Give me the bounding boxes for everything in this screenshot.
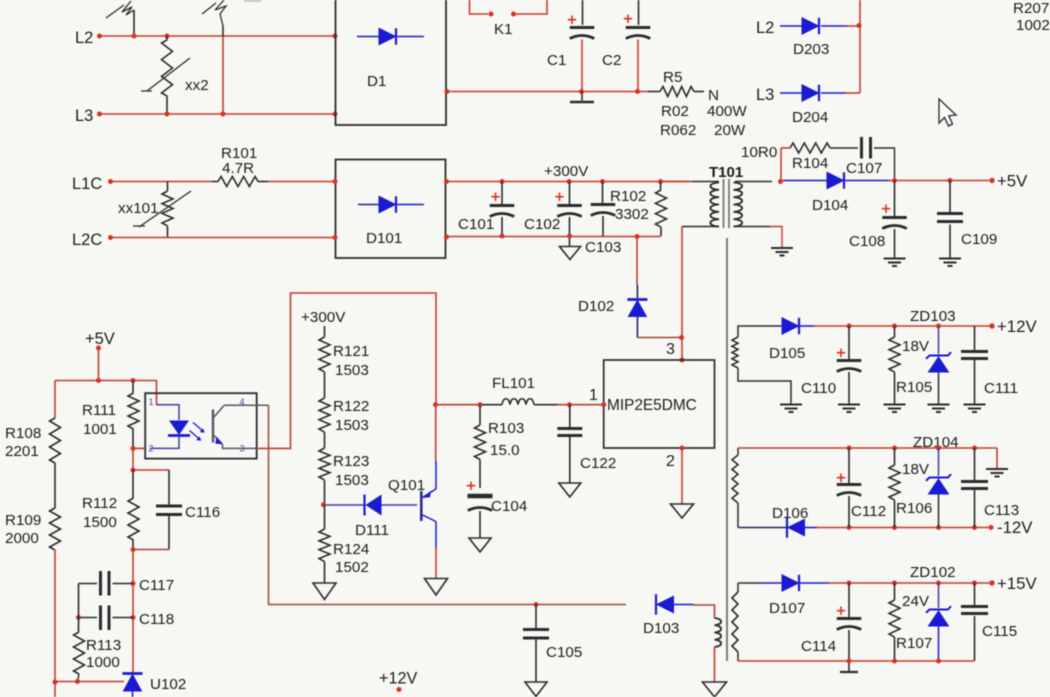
- junction C114 top: [847, 581, 852, 586]
- svg-text:1502: 1502: [335, 559, 369, 576]
- node +12V end: [989, 323, 994, 328]
- ground C122: [559, 483, 581, 497]
- svg-text:C102: C102: [524, 216, 560, 233]
- wire loop down to Q101: [435, 405, 437, 461]
- T101 core extension: [726, 238, 728, 661]
- ground S1: [780, 404, 802, 406]
- wire into opto pin1: [156, 381, 158, 406]
- T101 secondary bottom lead: [735, 226, 770, 228]
- junction C105: [534, 602, 539, 607]
- wire D203 out: [846, 25, 860, 27]
- plus C2: [624, 15, 632, 24]
- junction left-bottom: [53, 680, 58, 685]
- node T101 out: [778, 179, 783, 184]
- svg-text:D105: D105: [769, 345, 805, 362]
- diode D203: [780, 25, 802, 27]
- capacitor C113: [974, 448, 976, 480]
- wire D102 to pin3 node: [637, 337, 682, 339]
- svg-text:2000: 2000: [5, 530, 39, 547]
- svg-text:D203: D203: [793, 41, 829, 58]
- svg-text:L3: L3: [756, 86, 774, 104]
- node D1 in bottom: [333, 112, 338, 117]
- wire S4 bottom: [714, 647, 716, 682]
- wire +5V drop: [98, 348, 100, 381]
- svg-text:xx2: xx2: [185, 77, 209, 94]
- svg-text:C107: C107: [846, 160, 882, 177]
- svg-text:C101: C101: [458, 216, 494, 233]
- junction C1: [579, 89, 584, 94]
- plus C114: [837, 607, 845, 616]
- diode D104: [783, 180, 827, 182]
- svg-text:1: 1: [149, 397, 154, 407]
- svg-text:+5V: +5V: [997, 172, 1028, 191]
- capacitor C116: [168, 470, 170, 505]
- node D101 out top: [444, 179, 449, 184]
- capacitor C105: [535, 605, 537, 629]
- svg-text:L3: L3: [75, 107, 93, 125]
- opto phototransistor: [212, 410, 214, 443]
- diode D106: [738, 527, 787, 529]
- svg-text:C2: C2: [602, 52, 621, 69]
- wire D204 out: [846, 92, 860, 94]
- wire left rail bottom: [54, 550, 56, 697]
- svg-text:C109: C109: [961, 231, 997, 248]
- ground -12V rail: [986, 468, 1008, 470]
- ground C109: [939, 258, 961, 260]
- ground T101 secondary: [771, 247, 793, 249]
- svg-text:R111: R111: [82, 402, 116, 419]
- node D101 out bottom: [444, 235, 449, 240]
- svg-text:2: 2: [666, 453, 675, 470]
- wire C101 bottom: [501, 217, 503, 236]
- node D203 out: [857, 23, 862, 28]
- svg-text:+12V: +12V: [379, 670, 417, 688]
- resistor R124: [324, 505, 326, 529]
- junction C2: [635, 89, 640, 94]
- svg-text:Q101: Q101: [388, 477, 425, 494]
- junction C112 top: [847, 446, 852, 451]
- node +15V end: [989, 580, 994, 585]
- resistor R107: [894, 583, 896, 600]
- svg-text:R109: R109: [5, 512, 41, 529]
- capacitor C104: [468, 494, 493, 498]
- optocoupler box: [145, 393, 257, 458]
- node L1C dot: [108, 179, 113, 184]
- svg-text:+15V: +15V: [997, 574, 1037, 593]
- wire +300V rail: [447, 181, 691, 183]
- plus C1: [568, 16, 576, 25]
- node +5V: [96, 346, 101, 351]
- zener ZD102: [938, 583, 940, 608]
- wire +15V bottom rail: [738, 660, 975, 662]
- svg-text:R122: R122: [333, 398, 369, 415]
- junction R106 bottom: [892, 525, 897, 530]
- svg-text:R107: R107: [896, 635, 932, 652]
- junction 98/380: [96, 378, 101, 383]
- wire x133 rail: [132, 550, 134, 674]
- earth stub C114: [848, 661, 850, 671]
- svg-text:1000: 1000: [86, 654, 120, 671]
- T101 primary bottom lead: [682, 226, 719, 228]
- svg-text:K1: K1: [494, 21, 513, 38]
- svg-text:L1C: L1C: [72, 175, 102, 193]
- junction R107 top: [892, 581, 897, 586]
- svg-text:ZD103: ZD103: [910, 308, 956, 325]
- resistor R121: [324, 326, 326, 337]
- resistor R5: [648, 91, 660, 93]
- wire to T101 primary top: [661, 181, 692, 183]
- svg-text:R121: R121: [333, 343, 369, 360]
- ground C105: [525, 682, 547, 697]
- svg-text:C1: C1: [547, 52, 566, 69]
- wire +5V horizontal: [55, 380, 157, 382]
- wire C117-C118 left link: [78, 584, 80, 633]
- diode D103: [655, 594, 657, 614]
- capacitor C109: [949, 181, 951, 213]
- capacitor C102: [569, 182, 571, 205]
- node L3 start dot: [97, 112, 102, 117]
- ground S4: [703, 682, 727, 697]
- wire left rail top: [54, 381, 56, 419]
- ground below C102: [560, 247, 581, 260]
- wire pin1: [557, 404, 604, 406]
- diode symbol in D101: [358, 204, 424, 206]
- svg-text:R062: R062: [660, 122, 696, 139]
- svg-text:+12V: +12V: [997, 317, 1037, 336]
- wire pin2 drop: [681, 448, 683, 504]
- svg-text:R124: R124: [333, 541, 369, 558]
- svg-text:xx101: xx101: [118, 200, 159, 217]
- junction R113 bottom: [75, 679, 80, 684]
- wire R111bot to C116 node: [132, 448, 134, 470]
- wire primary bottom drop: [681, 227, 683, 361]
- wire L1C: [112, 181, 212, 183]
- wire C110 bottom: [848, 372, 850, 404]
- svg-text:15.0: 15.0: [490, 442, 520, 459]
- junction ZD104 top: [936, 446, 941, 451]
- resistor R112: [132, 470, 134, 498]
- junction R107 bottom: [892, 659, 897, 664]
- wire L3 line: [101, 113, 336, 115]
- wire -12V rail: [816, 527, 990, 529]
- svg-text:R105: R105: [896, 379, 932, 396]
- wire opto pin2 out: [133, 447, 145, 449]
- node pin1: [601, 402, 606, 407]
- capacitor C1: [570, 26, 595, 29]
- wire L2 line: [101, 35, 336, 37]
- wire C104 bottom: [479, 511, 481, 538]
- earth stub below C1: [581, 92, 583, 101]
- wire C109 bottom: [949, 225, 951, 259]
- ground C110: [838, 404, 860, 406]
- svg-text:C115: C115: [982, 623, 1017, 640]
- capacitor C111: [974, 326, 976, 350]
- wire C116 branch: [133, 469, 169, 471]
- node D1 output: [445, 89, 450, 94]
- junction R112 bottom: [131, 547, 136, 552]
- svg-text:C108: C108: [849, 233, 885, 250]
- svg-text:C118: C118: [139, 611, 174, 628]
- junction C117 right: [131, 581, 136, 586]
- node +12V bottom: [397, 687, 402, 692]
- junction R106 top: [892, 446, 897, 451]
- junction C122: [567, 402, 572, 407]
- junction ZD103: [936, 324, 941, 329]
- wire -12V top rail: [738, 447, 997, 449]
- node K1 right: [511, 12, 516, 17]
- svg-text:C116: C116: [185, 504, 220, 521]
- node D101 in top: [333, 179, 338, 184]
- svg-text:R123: R123: [333, 453, 369, 470]
- wire +12V rail: [813, 325, 990, 327]
- winding S2: [737, 448, 739, 455]
- transistor Q101: [420, 491, 423, 521]
- junction C118 left: [76, 615, 81, 620]
- capacitor C112: [848, 448, 850, 483]
- junction C113 top: [972, 446, 977, 451]
- resistor R109: [50, 508, 61, 550]
- wire opto pin4 out: [257, 404, 269, 406]
- svg-text:+300V: +300V: [544, 163, 589, 180]
- capacitor C114: [848, 583, 850, 617]
- resistor R122: [324, 372, 326, 398]
- wire L2C: [112, 237, 336, 239]
- svg-text:400W: 400W: [707, 103, 747, 120]
- winding S3: [737, 583, 739, 592]
- wire bottom rail: [447, 236, 662, 238]
- junction L3/vert: [221, 112, 226, 117]
- svg-text:D103: D103: [643, 620, 679, 637]
- capacitor C2 top lead: [638, 0, 640, 25]
- relay contact K1: [470, 0, 489, 14]
- wire R101 to D101: [268, 181, 336, 183]
- node L2 start dot: [97, 34, 102, 39]
- inductor FL101: [480, 404, 502, 406]
- svg-text:D101: D101: [366, 230, 402, 247]
- T101 core: [723, 179, 725, 228]
- capacitor C108: [894, 181, 896, 217]
- svg-text:+300V: +300V: [301, 309, 346, 326]
- svg-text:FL101: FL101: [492, 375, 535, 392]
- wire loop to FL101: [436, 404, 480, 406]
- resistor R108: [50, 418, 61, 463]
- node -12V: [989, 525, 994, 530]
- capacitor C110: [848, 326, 850, 359]
- junction C109: [948, 178, 953, 183]
- resistor R101: [212, 181, 218, 183]
- svg-text:C104: C104: [491, 498, 527, 515]
- node K1 left: [489, 12, 494, 17]
- node L2C dot: [108, 235, 113, 240]
- wire Q101 collector down: [435, 522, 437, 549]
- svg-text:R02: R02: [661, 103, 689, 120]
- junction C108: [892, 178, 897, 183]
- bridge rectifier D1 box: [336, 0, 447, 125]
- node D1 in top: [333, 34, 338, 39]
- diode U102: [123, 672, 143, 675]
- capacitor C1 top lead: [582, 0, 584, 25]
- svg-text:ZD102: ZD102: [910, 564, 956, 581]
- junction C103 top: [600, 179, 605, 184]
- wire C108 bottom: [894, 229, 896, 258]
- svg-text:1503: 1503: [335, 472, 369, 489]
- ground C108: [884, 258, 906, 260]
- svg-text:L2C: L2C: [72, 231, 102, 249]
- capacitor C101: [501, 182, 503, 205]
- svg-text:1503: 1503: [335, 417, 369, 434]
- fuse lead above L3: [222, 26, 224, 36]
- wire C111 bottom: [974, 360, 976, 404]
- ground C104: [469, 538, 491, 552]
- wire up to R104: [780, 148, 782, 182]
- svg-text:N: N: [708, 87, 719, 104]
- ground C111: [964, 404, 986, 406]
- resistor R102: [660, 182, 662, 191]
- junction C110: [847, 324, 852, 329]
- svg-text:3302: 3302: [615, 206, 649, 223]
- junction C114 bottom: [847, 659, 852, 664]
- svg-text:D1: D1: [367, 73, 386, 90]
- wire opto loop: [258, 293, 436, 448]
- junction C112 bottom: [847, 525, 852, 530]
- winding S4 for D103: [715, 618, 722, 647]
- junction L3/xx2: [165, 112, 170, 117]
- svg-text:C105: C105: [546, 644, 582, 661]
- junction R111 top: [131, 378, 136, 383]
- plus C102: [555, 193, 563, 202]
- junction C102 bottom: [567, 234, 572, 239]
- wire C112 bottom: [848, 496, 850, 528]
- diode symbol in D1: [357, 36, 424, 38]
- ground R105: [884, 404, 906, 406]
- zener ZD104: [938, 448, 940, 476]
- opto light arrows: [190, 423, 204, 440]
- junction C118 right: [131, 615, 136, 620]
- winding S1: [738, 326, 782, 337]
- junction C101 top: [500, 179, 505, 184]
- plus C108: [882, 205, 890, 214]
- diode D102: [636, 285, 638, 298]
- wire top rail to gnd: [996, 448, 998, 468]
- ground Q101: [425, 579, 448, 596]
- svg-text:R112: R112: [82, 495, 117, 512]
- svg-text:C122: C122: [580, 455, 616, 472]
- ground R124: [313, 583, 336, 600]
- junction ZD104 bottom: [936, 525, 941, 530]
- svg-text:4.7R: 4.7R: [222, 160, 254, 177]
- junction R105: [892, 324, 897, 329]
- svg-text:T101: T101: [709, 164, 743, 181]
- svg-text:R113: R113: [86, 637, 121, 654]
- diode D107: [762, 582, 782, 584]
- wire Q101 emitter up: [435, 461, 437, 489]
- plus C104: [467, 482, 475, 491]
- wire C2 bottom: [637, 40, 639, 92]
- ground pin2: [671, 504, 694, 518]
- T101 primary winding: [710, 183, 719, 227]
- wire S3 top lead: [738, 582, 762, 584]
- diode D111: [326, 504, 364, 506]
- svg-text:R207: R207: [1013, 0, 1049, 17]
- wire C1 bottom: [581, 40, 583, 92]
- resistor R106: [894, 448, 896, 465]
- junction FL101 left: [433, 402, 438, 407]
- svg-text:1503: 1503: [335, 362, 369, 379]
- svg-text:D107: D107: [769, 600, 805, 617]
- svg-text:+5V: +5V: [85, 330, 115, 348]
- resistor R105: [894, 326, 896, 337]
- capacitor C107: [860, 137, 863, 159]
- wire C116 bottom: [168, 516, 170, 550]
- plus C101: [491, 193, 499, 202]
- mouse cursor: [939, 99, 956, 126]
- junction C116 branch: [131, 468, 136, 473]
- svg-text:R104: R104: [792, 155, 828, 172]
- wire pin4 drop: [269, 405, 627, 604]
- svg-text:L2: L2: [75, 29, 93, 47]
- svg-text:1500: 1500: [83, 514, 117, 531]
- wire C115 bottom: [974, 616, 976, 661]
- capacitor C117: [99, 571, 102, 596]
- wire fuse-to-L3 vertical: [222, 36, 224, 114]
- svg-text:10R0: 10R0: [741, 144, 777, 161]
- T101 secondary winding: [734, 183, 743, 227]
- svg-text:20W: 20W: [714, 122, 746, 139]
- wire C113 bottom: [974, 490, 976, 528]
- svg-text:C113: C113: [984, 502, 1019, 519]
- ground ZD103: [928, 404, 950, 406]
- svg-text:R5: R5: [663, 69, 682, 86]
- svg-text:-12V: -12V: [997, 518, 1033, 537]
- T101 primary top lead: [692, 181, 719, 183]
- diode D204: [780, 92, 802, 94]
- diode D105: [782, 318, 799, 334]
- junction at 682/337: [679, 335, 684, 340]
- svg-text:R108: R108: [5, 425, 41, 442]
- svg-text:C110: C110: [801, 380, 836, 397]
- svg-text:18V: 18V: [902, 461, 930, 478]
- svg-text:1001: 1001: [83, 421, 117, 438]
- wire C107 to +5V rail: [874, 148, 895, 181]
- resistor R104: [781, 147, 790, 149]
- svg-text:R106: R106: [896, 500, 932, 517]
- capacitor C103: [602, 182, 604, 204]
- svg-text:L2: L2: [756, 19, 774, 37]
- junction C101 bottom: [500, 234, 505, 239]
- plus C112: [837, 474, 845, 483]
- wire bottom-left: [55, 681, 124, 683]
- svg-text:3: 3: [666, 341, 675, 358]
- svg-text:U102: U102: [150, 676, 186, 693]
- wire D102 drop: [636, 237, 638, 286]
- junction D111: [321, 502, 326, 507]
- resistor R103: [479, 405, 481, 425]
- wire vertical right bus: [859, 0, 861, 93]
- junction D102 top: [635, 234, 640, 239]
- capacitor C2: [626, 26, 651, 29]
- svg-text:R103: R103: [488, 420, 524, 437]
- svg-text:C103: C103: [585, 239, 621, 256]
- resistor R113: [74, 632, 85, 674]
- plus C110: [837, 349, 845, 358]
- varistor xx2: [162, 40, 173, 96]
- junction R111 bottom: [131, 446, 136, 451]
- junction C115 top: [972, 581, 977, 586]
- wire C122 bottom: [569, 437, 571, 483]
- wire C102 bottom: [569, 217, 571, 247]
- capacitor C122: [569, 405, 571, 427]
- varistor xx101: [167, 182, 169, 192]
